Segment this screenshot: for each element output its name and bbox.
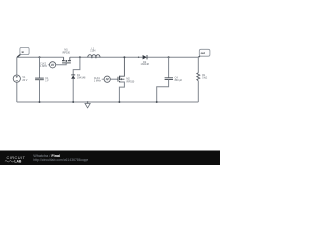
junction: C2 top bbox=[168, 56, 170, 58]
wire: C1 branch top bbox=[39, 57, 41, 78]
footer url text bbox=[33, 158, 88, 162]
footer bar bbox=[0, 151, 220, 166]
junction: D1 bottom bbox=[72, 101, 74, 103]
label L1 1 uH bbox=[90, 48, 95, 53]
label C1 1 F bbox=[45, 77, 49, 82]
clock source CLK2 bbox=[48, 62, 56, 68]
clock source CLK1 bbox=[102, 76, 111, 82]
label CLK1 1 MHz bbox=[94, 77, 102, 82]
svg-text:1 µH: 1 µH bbox=[90, 50, 95, 53]
label R1 5 kOhm bbox=[202, 74, 207, 80]
svg-text:20 V: 20 V bbox=[22, 79, 27, 82]
svg-text:1 F: 1 F bbox=[45, 79, 49, 82]
wire: right branch top lead bbox=[197, 57, 199, 73]
wire: C2 bottom jog to bottom rail bbox=[157, 80, 169, 103]
footer title text bbox=[33, 154, 60, 158]
svg-text:830 µF: 830 µF bbox=[175, 79, 183, 82]
flag on input node bbox=[17, 47, 29, 57]
svg-text:1 MHz: 1 MHz bbox=[40, 65, 48, 68]
wire: D1 anode down to bottom rail bbox=[72, 79, 74, 102]
voltage source V1 bbox=[13, 75, 20, 82]
label D2 1N4148 bbox=[141, 61, 150, 66]
diode D1 (vertical, cathode up) bbox=[71, 75, 75, 79]
wire: V1 top lead up to top-left corner bbox=[16, 57, 18, 75]
wire: top rail right of M1 to top-right corner bbox=[70, 56, 199, 58]
wire: CLK2 output to M1 gate bbox=[56, 63, 66, 65]
CircuitLab logo bbox=[5, 155, 26, 163]
wire: V1 bottom lead down to bottom rail bbox=[16, 82, 18, 102]
svg-text:LAB: LAB bbox=[14, 159, 22, 163]
wire: bottom rail bbox=[17, 101, 199, 103]
flag on output node bbox=[199, 49, 210, 57]
node dot at D2 anode bbox=[138, 57, 139, 58]
svg-text:1 MHz: 1 MHz bbox=[94, 79, 102, 82]
label M1 IRF530 bbox=[62, 49, 71, 55]
junction: C1 bottom bbox=[39, 101, 41, 103]
wire: C2 branch top bbox=[168, 57, 170, 77]
svg-text:IRF530: IRF530 bbox=[126, 80, 135, 83]
label V1 20 V bbox=[22, 76, 27, 82]
label C4 830 uF bbox=[175, 77, 183, 82]
capacitor C1 bbox=[35, 78, 44, 80]
ground bbox=[85, 101, 90, 108]
junction: C2 bottom bbox=[156, 101, 158, 103]
label D1 1N4148 bbox=[77, 74, 86, 80]
svg-text:5 kΩ: 5 kΩ bbox=[202, 77, 207, 80]
svg-text:1N4148: 1N4148 bbox=[77, 76, 86, 79]
diode D2 (horizontal, cathode right) bbox=[143, 55, 147, 59]
junction: C1 top bbox=[39, 56, 41, 58]
transistor M1 (horizontal, in series with top rail) bbox=[62, 57, 71, 63]
wire: right branch bottom lead bbox=[197, 81, 199, 102]
junction: M2 drain on top rail bbox=[123, 56, 125, 58]
transistor M2 (vertical) bbox=[118, 57, 124, 102]
label CLK2 1 MHz bbox=[40, 62, 48, 67]
junction: M2 source on bottom rail bbox=[118, 101, 120, 103]
wire: C1 branch bottom bbox=[39, 80, 41, 102]
resistor R1 bbox=[197, 73, 200, 81]
label M2 IRF530 bbox=[126, 78, 135, 84]
svg-text:IRF530: IRF530 bbox=[62, 51, 71, 54]
svg-text:1N4148: 1N4148 bbox=[141, 63, 150, 66]
svg-text:out: out bbox=[201, 51, 205, 55]
svg-text:http://circuitlab.com/c6143678: http://circuitlab.com/c61436786oqqe bbox=[33, 158, 88, 162]
wire: CLK1 output to M2 gate bbox=[110, 78, 118, 80]
wire: top rail left segment (corner to M1 drain) bbox=[17, 56, 64, 58]
junction: D1 branch on top rail bbox=[79, 56, 81, 58]
wire: top rail down to diode D1 bbox=[73, 57, 80, 75]
capacitor C4 bbox=[165, 78, 173, 80]
inductor L1 bbox=[88, 55, 100, 59]
svg-text:in: in bbox=[22, 50, 25, 54]
